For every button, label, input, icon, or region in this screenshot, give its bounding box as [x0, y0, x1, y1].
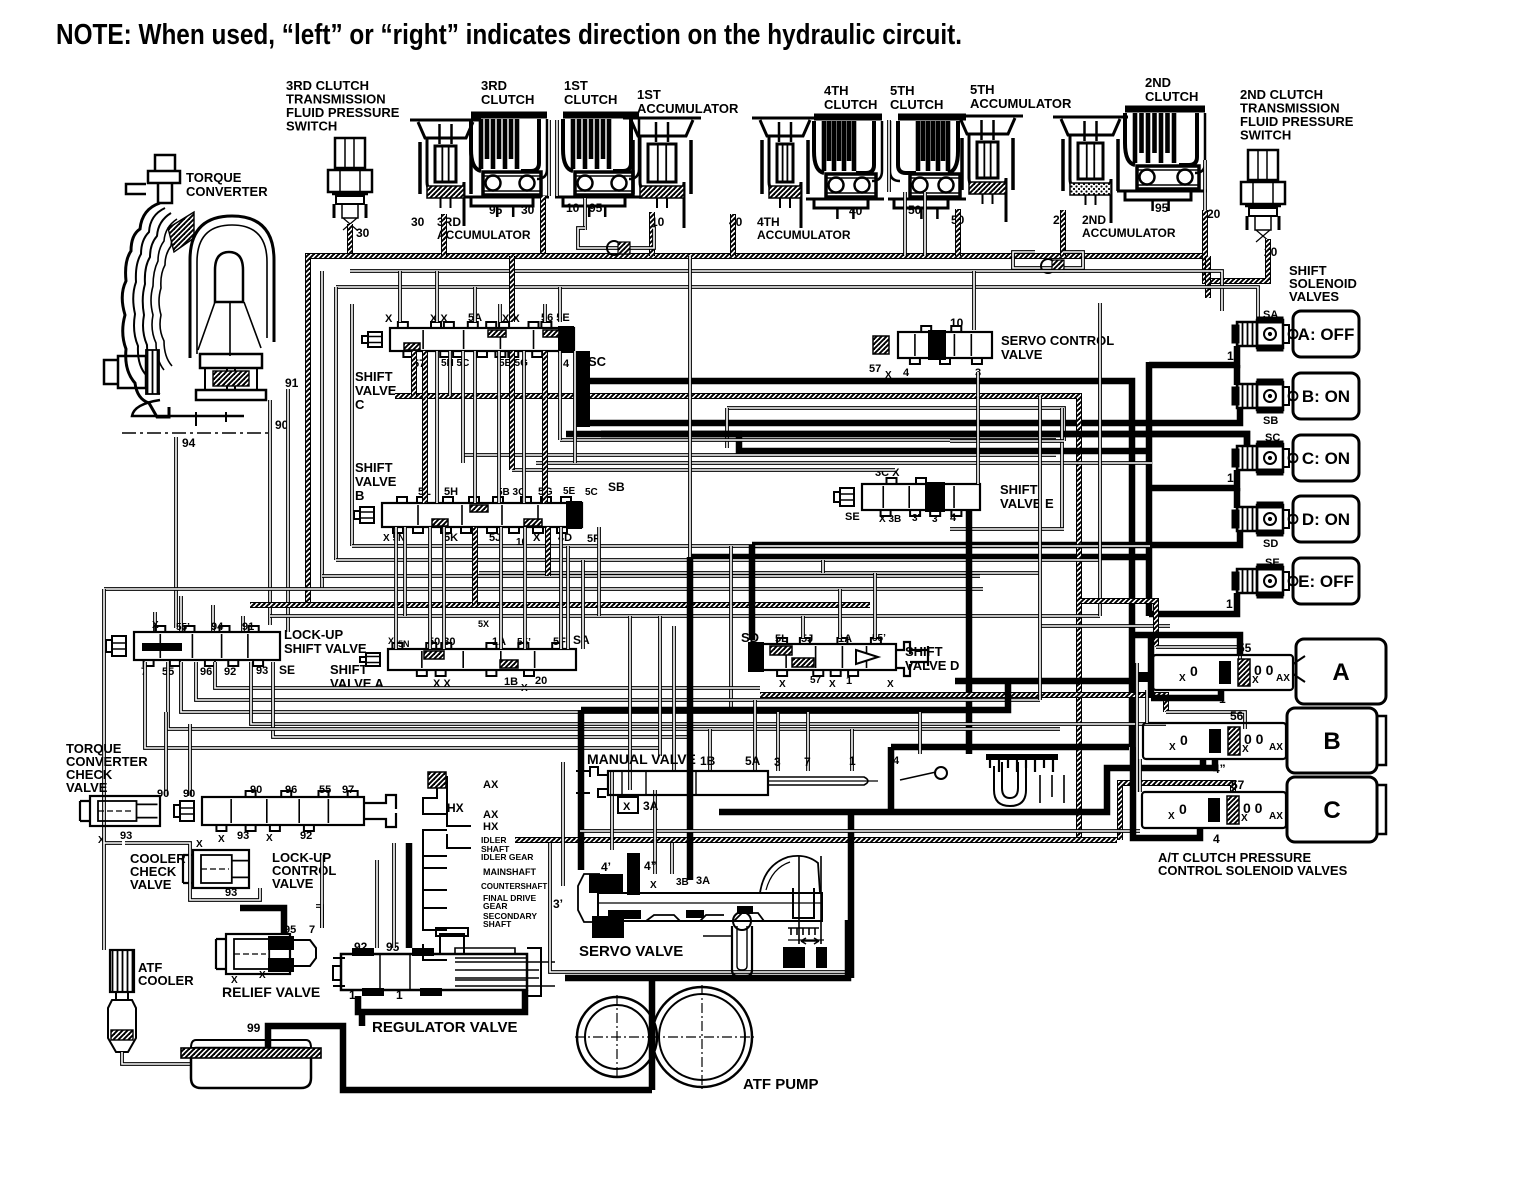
- svg-text:IDLER GEAR: IDLER GEAR: [481, 852, 533, 862]
- wire 55 port: [168, 662, 1060, 729]
- svg-text:3RD: 3RD: [481, 78, 507, 93]
- wire: [888, 747, 895, 812]
- wire 4p down: [687, 557, 694, 880]
- wire: [320, 271, 324, 589]
- lockup valve spool dark: [142, 643, 182, 651]
- case centerline: [122, 432, 268, 434]
- svg-text:B: B: [1323, 728, 1340, 755]
- svg-text:SE: SE: [1265, 557, 1280, 569]
- torque converter check valve: [80, 796, 160, 826]
- svg-text:ATF PUMP: ATF PUMP: [743, 1076, 819, 1093]
- svg-text:SB: SB: [1263, 415, 1278, 427]
- svg-text:2ND: 2ND: [1145, 75, 1171, 90]
- shift valve C: [362, 322, 574, 357]
- svg-text:1: 1: [1227, 349, 1234, 363]
- shift solenoid SB: [1232, 379, 1298, 413]
- svg-text:SERVO CONTROL: SERVO CONTROL: [1001, 333, 1114, 348]
- svg-text:CLUTCH: CLUTCH: [564, 92, 617, 107]
- wire: [394, 527, 398, 649]
- svg-text:3: 3: [932, 514, 938, 525]
- wire: [972, 271, 976, 330]
- svg-text:3: 3: [774, 755, 781, 769]
- wire: [1098, 303, 1102, 616]
- oil pan tank: [191, 1048, 311, 1088]
- svg-text:1: 1: [1226, 597, 1233, 611]
- black blob left of A: [1138, 672, 1150, 682]
- wire: [322, 574, 980, 578]
- svg-text:1: 1: [396, 988, 403, 1002]
- wire 3A: [610, 770, 614, 850]
- wire: [542, 351, 548, 503]
- wire 3p: [561, 762, 565, 886]
- wire 90 down: [164, 712, 168, 796]
- svg-text:3A: 3A: [696, 875, 710, 887]
- svg-text:30: 30: [356, 226, 370, 240]
- wire SE supply: [690, 554, 1146, 561]
- wire 1 to SE: [1149, 593, 1237, 614]
- wire: [873, 573, 877, 638]
- wire: [411, 351, 417, 396]
- svg-text:X: X: [231, 975, 238, 986]
- wire: [270, 614, 1100, 618]
- E-box bottom: [950, 527, 1064, 531]
- shift valve B: [354, 497, 582, 533]
- wire 90 down 2: [188, 724, 192, 796]
- wire: [403, 527, 407, 616]
- wire: [122, 1052, 192, 1064]
- wire 7 port: [145, 662, 660, 748]
- wire: [1146, 362, 1153, 616]
- wire: [545, 527, 551, 576]
- svg-text:AX: AX: [1276, 673, 1290, 684]
- svg-text:CLUTCH: CLUTCH: [1145, 89, 1198, 104]
- wire 93: [273, 662, 690, 737]
- wire: [1040, 624, 1170, 628]
- svg-text:CLUTCH: CLUTCH: [890, 97, 943, 112]
- svg-text:95: 95: [489, 203, 503, 217]
- lockup control right cap: [364, 795, 396, 827]
- svg-text:C: C: [355, 397, 365, 412]
- svg-text:X: X: [385, 313, 393, 325]
- wire 57 hatch: [1120, 783, 1233, 840]
- svg-text:X: X: [887, 679, 894, 690]
- svg-text:SWITCH: SWITCH: [1240, 128, 1291, 143]
- svg-text:COUNTERSHAFT: COUNTERSHAFT: [481, 882, 547, 891]
- svg-text:CLUTCH: CLUTCH: [481, 92, 534, 107]
- svg-text:LOCK-UP: LOCK-UP: [284, 627, 344, 642]
- svg-text:VALVE: VALVE: [1001, 347, 1043, 362]
- svg-text:B: B: [355, 488, 364, 503]
- svg-text:SE: SE: [279, 663, 295, 677]
- hatch block servo control: [873, 336, 889, 354]
- svg-text:93: 93: [225, 887, 237, 899]
- svg-text:AX: AX: [1269, 811, 1283, 822]
- wire lockup 96: [196, 662, 1040, 700]
- wire lockup to right: [181, 662, 920, 712]
- svg-text:50: 50: [908, 203, 922, 217]
- svg-text:SWITCH: SWITCH: [286, 119, 337, 134]
- svg-text:94: 94: [211, 621, 224, 633]
- svg-text:1: 1: [1219, 692, 1226, 706]
- lube feed lines: [423, 776, 471, 960]
- shift valve E: [834, 478, 980, 516]
- svg-text:50 30: 50 30: [428, 636, 456, 648]
- svg-text:1: 1: [849, 754, 856, 768]
- relief right piece: [294, 940, 316, 966]
- SC feed column: [576, 351, 590, 427]
- pressure control solenoid C: [1142, 792, 1286, 828]
- svg-text:RELIEF VALVE: RELIEF VALVE: [222, 984, 320, 1000]
- svg-text:X X: X X: [430, 313, 448, 325]
- stub: [558, 287, 562, 322]
- wire: [461, 351, 465, 463]
- wire 30 drop 3rd clutch: [540, 196, 546, 256]
- svg-text:4’: 4’: [601, 860, 611, 874]
- wire: [316, 906, 322, 928]
- svg-text:0: 0: [1180, 732, 1188, 748]
- wire: [597, 527, 601, 616]
- svg-text:5B 3C: 5B 3C: [497, 487, 525, 498]
- wire 95 1st clutch: [583, 198, 587, 230]
- wire SD up: [749, 545, 756, 640]
- svg-text:92: 92: [300, 830, 312, 842]
- svg-text:1: 1: [846, 675, 852, 687]
- wire 1 to SA: [1149, 346, 1237, 365]
- svg-text:VALVE: VALVE: [130, 877, 172, 892]
- svg-text:CLUTCH: CLUTCH: [824, 97, 877, 112]
- wire: [350, 304, 354, 546]
- svg-text:1B: 1B: [700, 754, 716, 768]
- C bottom wire: [1133, 747, 1200, 838]
- wire: [308, 256, 1208, 605]
- svg-text:1: 1: [1227, 471, 1234, 485]
- svg-text:96: 96: [200, 666, 212, 678]
- svg-text:99: 99: [247, 1021, 261, 1035]
- svg-text:0 0: 0 0: [1254, 662, 1274, 678]
- svg-text:5K: 5K: [444, 532, 458, 544]
- clutch: [806, 117, 884, 219]
- shift valve D: [748, 638, 896, 676]
- wire 55: [1156, 647, 1240, 663]
- pressure control solenoid A: [1153, 655, 1293, 690]
- svg-text:SHIFT VALVE: SHIFT VALVE: [284, 641, 367, 656]
- svg-text:91: 91: [242, 621, 254, 633]
- clutch: [1117, 109, 1207, 211]
- wire SC supply: [566, 434, 1247, 446]
- svg-text:GEAR: GEAR: [483, 901, 508, 911]
- svg-text:20: 20: [535, 675, 547, 687]
- svg-text:4: 4: [1213, 832, 1220, 846]
- relief supply: [240, 908, 284, 934]
- manual valve: [576, 767, 878, 797]
- bus line 2: [336, 287, 1258, 322]
- wire 91 drop: [241, 616, 245, 632]
- wire: [473, 351, 477, 503]
- svg-text:5A: 5A: [745, 754, 761, 768]
- wire 55 drop: [179, 596, 183, 632]
- pressure switch: [1241, 150, 1285, 242]
- wire: [336, 558, 1100, 562]
- svg-text:X: X: [196, 839, 203, 850]
- svg-text:X: X: [623, 801, 631, 813]
- svg-text:3B: 3B: [676, 877, 689, 888]
- wire valve E down: [966, 510, 973, 754]
- servo black blobs: [589, 874, 623, 893]
- svg-text:96: 96: [285, 784, 297, 796]
- check ball 1st: [607, 241, 621, 255]
- clutch: [555, 115, 641, 217]
- svg-text:C: C: [1323, 797, 1340, 824]
- wire: [729, 546, 733, 710]
- bus line 1: [350, 271, 1222, 311]
- wire: [838, 589, 842, 638]
- stub C X: [398, 271, 402, 322]
- wire 3rd accumulator: [441, 214, 447, 256]
- stub: [435, 271, 439, 322]
- svg-text:30: 30: [521, 203, 535, 217]
- clutch pair column 4th-5th: [887, 120, 891, 192]
- wire left border 2: [104, 830, 122, 950]
- wire: [523, 527, 527, 649]
- wire 7: [806, 712, 810, 771]
- wire: [555, 120, 559, 196]
- svg-text:5E: 5E: [563, 486, 576, 497]
- svg-text:A: A: [1332, 659, 1349, 686]
- wire: [565, 920, 848, 978]
- svg-text:57: 57: [869, 363, 881, 375]
- wire: [558, 351, 562, 440]
- svg-text:57: 57: [1231, 778, 1245, 792]
- B port stub: [1200, 759, 1207, 768]
- wire down right: [848, 812, 855, 978]
- atf pump small gear: [577, 997, 657, 1077]
- accumulator: [1053, 117, 1128, 223]
- wire: [1038, 640, 1042, 700]
- svg-text:ACCUMULATOR: ACCUMULATOR: [637, 101, 739, 116]
- wire 10 1st accumulator: [650, 214, 654, 246]
- wire 7: [320, 855, 324, 928]
- svg-text:7: 7: [804, 755, 811, 769]
- long hatch through servo: [515, 837, 1117, 843]
- svg-text:SD: SD: [1263, 538, 1278, 550]
- svg-text:2ND: 2ND: [1082, 213, 1106, 227]
- wire: [334, 287, 338, 560]
- svg-text:X: X: [829, 679, 836, 690]
- valve D internal hatch: [770, 646, 792, 655]
- wire: [760, 695, 1166, 712]
- wire servo to E: [976, 372, 980, 484]
- wire 95 thick: [406, 843, 413, 948]
- lock-up shift valve: [106, 626, 280, 666]
- svg-text:4TH: 4TH: [757, 215, 780, 229]
- svg-text:ACCUMULATOR: ACCUMULATOR: [437, 228, 531, 242]
- wire: [104, 587, 983, 591]
- check ball 2nd: [1041, 259, 1055, 273]
- svg-text:55: 55: [319, 784, 331, 796]
- wire: [1038, 396, 1042, 640]
- wire: [658, 616, 662, 756]
- atf strainer funnel: [108, 992, 136, 1052]
- wire 4p stub: [631, 853, 638, 894]
- svg-text:5TH: 5TH: [970, 82, 995, 97]
- accumulator: [410, 120, 481, 226]
- wire: [499, 527, 503, 649]
- svg-text:5X: 5X: [478, 619, 489, 629]
- wire: [375, 860, 379, 948]
- wire 5A: [753, 700, 757, 771]
- shift valve A: [360, 643, 576, 676]
- servo valve: [578, 856, 822, 976]
- thick jog line: [601, 434, 1150, 451]
- wire: [1145, 690, 1149, 723]
- wire 3: [776, 712, 780, 771]
- svg-text:X: X: [152, 620, 159, 631]
- svg-text:MAINSHAFT: MAINSHAFT: [483, 867, 536, 877]
- svg-text:CONTROL SOLENOID VALVES: CONTROL SOLENOID VALVES: [1158, 863, 1348, 878]
- svg-text:93: 93: [120, 830, 132, 842]
- svg-text:4TH: 4TH: [824, 83, 849, 98]
- relief black blobs: [268, 936, 294, 950]
- wire: [581, 560, 585, 649]
- svg-text:0: 0: [1179, 801, 1187, 817]
- solenoid state box E: OFF: [1293, 558, 1359, 604]
- svg-text:SC: SC: [588, 354, 607, 369]
- svg-text:ACCUMULATOR: ACCUMULATOR: [757, 228, 851, 242]
- svg-text:COOLER: COOLER: [138, 973, 194, 988]
- wire SB: [583, 408, 1240, 423]
- wire: [821, 560, 825, 573]
- wire: [653, 790, 657, 874]
- wire to 55: [1132, 635, 1240, 655]
- pressure control solenoid B: [1143, 723, 1286, 759]
- svg-text:X: X: [388, 636, 394, 646]
- shift solenoid SD: [1232, 502, 1298, 536]
- wire 3B: [670, 843, 674, 874]
- wire: [352, 544, 1150, 548]
- svg-text:VALVE: VALVE: [272, 876, 314, 891]
- pressure switch: [328, 138, 372, 230]
- wire 92: [251, 662, 1166, 724]
- torque converter: [104, 155, 274, 426]
- svg-text:X: X: [1169, 742, 1176, 753]
- svg-text:3A: 3A: [643, 799, 659, 813]
- wire: [580, 829, 1140, 833]
- case wall right: [268, 400, 272, 625]
- case wall left: [174, 437, 178, 628]
- wire: [725, 408, 729, 448]
- svg-text:95: 95: [1155, 201, 1169, 215]
- svg-text:1ST: 1ST: [637, 87, 661, 102]
- wire: [497, 351, 501, 503]
- svg-text:VALVE: VALVE: [66, 780, 108, 795]
- svg-text:X: X: [218, 834, 225, 845]
- regulator black ports: [352, 948, 374, 956]
- svg-text:AX: AX: [483, 809, 499, 821]
- manual comb lines: [1040, 775, 1064, 803]
- hatch block lube: [428, 772, 446, 788]
- wire to solenoid block: [1205, 256, 1211, 298]
- svg-text:X: X: [1179, 673, 1186, 684]
- wire: [392, 843, 396, 948]
- wire 4th accumulator drop: [730, 214, 736, 256]
- wire 94 drop: [211, 605, 215, 632]
- svg-text:ACCUMULATOR: ACCUMULATOR: [970, 96, 1072, 111]
- stub: [498, 304, 502, 322]
- wire: [918, 712, 922, 754]
- wire: [708, 729, 712, 771]
- valve C internal hatch: [488, 330, 506, 337]
- svg-text:REGULATOR VALVE: REGULATOR VALVE: [372, 1019, 518, 1036]
- manual U tube: [994, 762, 1026, 806]
- svg-text:X: X: [1168, 811, 1175, 822]
- svg-text:30: 30: [411, 215, 425, 229]
- main hatched cross line: [395, 396, 1079, 840]
- wire: [448, 351, 452, 396]
- svg-text:56: 56: [1230, 709, 1244, 723]
- svg-text:4: 4: [903, 367, 910, 379]
- svg-text:3’: 3’: [553, 897, 563, 911]
- svg-text:VALVE: VALVE: [355, 474, 397, 489]
- svg-text:X: X: [650, 880, 657, 891]
- wire: [347, 224, 353, 256]
- hatch branch to 55: [1079, 601, 1156, 647]
- svg-text:SHIFT: SHIFT: [330, 662, 368, 677]
- svg-text:57: 57: [810, 675, 822, 686]
- svg-text:0 0: 0 0: [1244, 731, 1264, 747]
- wire: [1060, 408, 1064, 529]
- svg-text:0 0: 0 0: [1243, 800, 1263, 816]
- wire: [559, 527, 563, 649]
- wire: [550, 843, 846, 972]
- box C: [1287, 777, 1386, 842]
- svg-text:40: 40: [849, 204, 863, 218]
- svg-text:SA: SA: [1263, 309, 1278, 321]
- wire 1 to SC: [1149, 470, 1237, 488]
- svg-text:5C: 5C: [585, 487, 598, 498]
- wire: [801, 616, 805, 638]
- svg-text:90: 90: [183, 788, 195, 800]
- svg-text:C: ON: C: ON: [1302, 449, 1350, 468]
- wire: [472, 527, 478, 605]
- svg-text:SE: SE: [845, 511, 860, 523]
- wire: [1148, 635, 1155, 698]
- svg-text:55: 55: [1238, 641, 1252, 655]
- wire: [215, 662, 760, 688]
- svg-text:3': 3': [912, 513, 920, 524]
- wire to servo: [578, 710, 585, 870]
- accumulator: [952, 116, 1023, 222]
- manual valve X 3A: [618, 797, 638, 813]
- wire 4pp: [719, 759, 1215, 812]
- wire 5th accumulator drop: [955, 209, 961, 256]
- atf cooler: [110, 950, 134, 992]
- svg-text:X 3B: X 3B: [879, 514, 901, 525]
- svg-text:95: 95: [589, 201, 603, 215]
- svg-text:93: 93: [256, 665, 268, 677]
- solenoid state box B: ON: [1293, 373, 1359, 419]
- svg-text:5N: 5N: [398, 639, 410, 649]
- atf pump large gear: [652, 987, 752, 1087]
- svg-text:X: X: [779, 679, 786, 690]
- wire: [547, 120, 551, 196]
- svg-text:D: ON: D: ON: [1302, 510, 1350, 529]
- E-box top: [950, 439, 1064, 443]
- lock-up control valve: [174, 791, 364, 831]
- wire 1 A-valve: [1151, 690, 1221, 698]
- svg-text:0: 0: [1190, 663, 1198, 679]
- svg-text:5TH: 5TH: [890, 83, 915, 98]
- wire SE riser: [688, 256, 692, 557]
